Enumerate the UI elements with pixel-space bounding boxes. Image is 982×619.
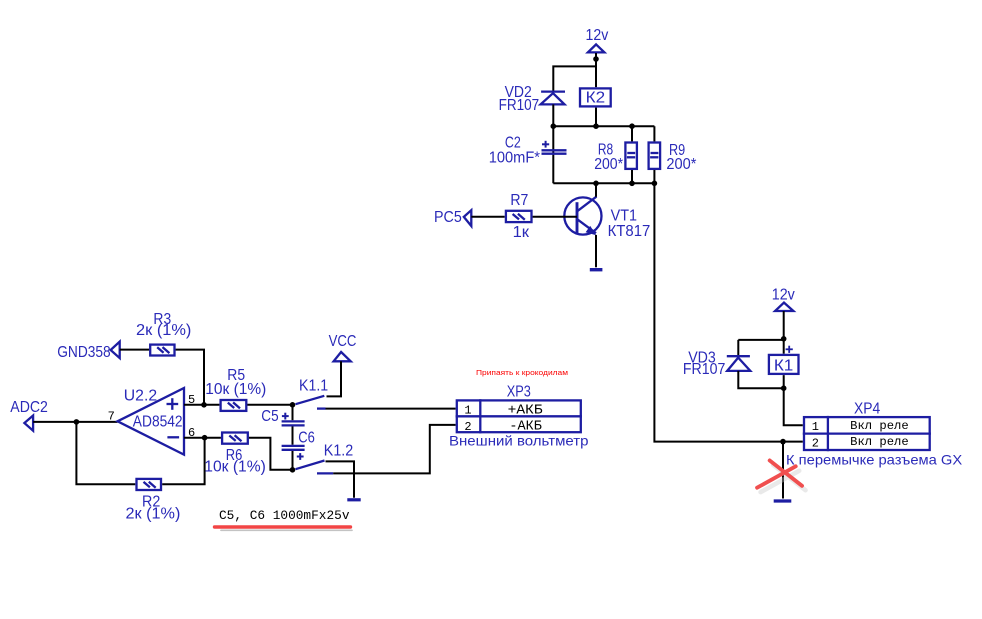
wire VCC to K1.1 arm [327, 361, 342, 396]
wire K1.1 contact to XP3 pin1 [326, 408, 456, 410]
wire K1.2 arm to ground [326, 461, 355, 497]
wire pin5 [184, 404, 219, 406]
node C6/K1.2 junction [290, 467, 296, 473]
wire K2 bottom [595, 108, 597, 127]
svg-text:1: 1 [464, 403, 471, 417]
node rail2-R8 [629, 181, 635, 187]
node rail-VD2 [551, 123, 557, 129]
svg-text:K1.2: K1.2 [324, 443, 353, 460]
capacitor C2 [542, 141, 567, 154]
svg-text:FR107: FR107 [683, 361, 726, 378]
svg-text:2: 2 [464, 420, 471, 434]
wire top rail [553, 125, 654, 127]
wire bottom rail [553, 182, 654, 184]
svg-text:Вкл реле: Вкл реле [850, 435, 909, 449]
op-amp U2.2 [118, 388, 185, 455]
wire branch to VD3 [738, 340, 783, 356]
wire R3 to pin5 [176, 350, 204, 405]
node rail-R8 [629, 123, 635, 129]
svg-text:ХР4: ХР4 [854, 400, 880, 417]
ground (K1.2) [347, 498, 360, 501]
resistor R6 [222, 433, 248, 444]
svg-text:10к (1%): 10к (1%) [204, 458, 265, 475]
svg-text:1: 1 [812, 420, 819, 434]
svg-text:2к (1%): 2к (1%) [136, 322, 191, 339]
connector XP3 [456, 399, 582, 434]
red X mark [761, 465, 806, 492]
svg-text:КТ817: КТ817 [608, 223, 651, 240]
relay coil K2 [580, 88, 611, 106]
node C5/K1.1 junction [290, 402, 296, 408]
wire R6 to C6 node [249, 438, 293, 470]
node output junction [74, 419, 80, 425]
svg-text:C6: C6 [298, 429, 315, 446]
svg-text:К перемычке разъема GX: К перемычке разъема GX [786, 452, 962, 467]
diode VD2 [541, 92, 565, 105]
wire stub to ground (crossed) [782, 442, 784, 499]
svg-text:R7: R7 [510, 192, 528, 209]
diode VD3 [727, 356, 751, 371]
power 12v (top) [586, 27, 609, 52]
wire GND358 to R3 [120, 349, 149, 351]
capacitor C5 [282, 413, 305, 426]
ground (VT1 emitter) [590, 268, 603, 271]
svg-text:+АКБ: +АКБ [508, 404, 543, 419]
power 12v (right) [772, 286, 795, 311]
svg-text:К2: К2 [586, 90, 606, 107]
wire R8 stubs [631, 126, 633, 183]
svg-text:10к (1%): 10к (1%) [205, 381, 266, 398]
svg-text:1к: 1к [513, 224, 529, 241]
wire collector [595, 183, 597, 197]
resistor R7 [506, 211, 532, 222]
node rail2-R9 [652, 181, 658, 187]
node junction at 12v [593, 56, 599, 62]
resistor R5 [221, 400, 247, 411]
port GND358 [57, 342, 119, 361]
svg-text:200*: 200* [594, 156, 623, 173]
wire R5 to C5 node [247, 404, 292, 406]
svg-text:7: 7 [108, 409, 115, 423]
node K1 bottom [781, 385, 787, 391]
svg-text:12v: 12v [586, 27, 609, 44]
wire R2 to pin6 [162, 438, 204, 485]
svg-text:ХР3: ХР3 [507, 384, 531, 401]
wire R9 stubs [653, 126, 655, 183]
wire 12v stub to K2 [595, 53, 597, 87]
wire feedback down to R2 [76, 422, 135, 484]
node K1 top branch [781, 336, 787, 342]
svg-text:AD8542: AD8542 [133, 414, 183, 431]
capacitor C6 [282, 446, 305, 460]
svg-text:VT1: VT1 [611, 207, 638, 224]
wire PC5 to R7 [471, 216, 504, 218]
wire VD2 anode to rail [552, 104, 554, 126]
wire branch to VD2 [553, 66, 596, 90]
wire VD3 anode bottom [738, 371, 783, 388]
svg-text:GND358: GND358 [57, 344, 111, 361]
node pin6 junction [202, 435, 208, 441]
node rail2-VT1 [593, 181, 599, 187]
wire ADC2 to op-amp output [33, 421, 117, 423]
svg-text:Вкл реле: Вкл реле [850, 419, 909, 433]
wire main right drop [654, 183, 802, 441]
wire pin6 [184, 437, 221, 439]
node rail-K2 [593, 123, 599, 129]
port PC5 [434, 209, 471, 226]
wire R7 to base [533, 216, 577, 218]
svg-text:ADC2: ADC2 [10, 399, 48, 416]
svg-text:2к (1%): 2к (1%) [126, 505, 181, 522]
wire emitter [595, 235, 597, 267]
node pin5 junction [201, 402, 207, 408]
red underline [215, 525, 351, 528]
resistor R2 [137, 479, 162, 490]
svg-text:Припаять к крокодилам: Припаять к крокодилам [476, 368, 568, 377]
svg-text:C5, C6 1000mFx25v: C5, C6 1000mFx25v [219, 509, 350, 523]
svg-text:-АКБ: -АКБ [509, 420, 541, 435]
wire K1.2 contact to XP3 pin2 [333, 425, 455, 474]
wire K1 to XP4 pin1 [784, 375, 803, 425]
transistor VT1 [564, 197, 601, 236]
switch K1.1 [296, 396, 326, 409]
switch K1.2 [296, 461, 334, 474]
svg-text:К1: К1 [774, 358, 794, 375]
wire 12v to K1 [783, 311, 785, 354]
svg-text:200*: 200* [666, 156, 696, 173]
svg-text:Внешний вольтметр: Внешний вольтметр [449, 434, 589, 449]
relay coil K1 [769, 346, 799, 375]
node XP4 pin2 branch [780, 439, 786, 445]
svg-text:U2.2: U2.2 [124, 387, 157, 404]
svg-text:VCC: VCC [329, 333, 357, 350]
resistor R3 [150, 345, 174, 356]
wire C5/C6 vertical [292, 405, 294, 470]
svg-text:C5: C5 [261, 408, 278, 425]
resistor R8 [625, 143, 637, 169]
connector XP4 [803, 416, 931, 451]
svg-text:12v: 12v [772, 286, 795, 303]
wire C2 vertical [552, 126, 554, 183]
power VCC [329, 333, 357, 362]
svg-text:100mF*: 100mF* [489, 150, 540, 167]
gray underline shadow [221, 529, 352, 531]
svg-text:K1.1: K1.1 [299, 377, 328, 394]
port ADC2 [10, 399, 48, 431]
svg-text:FR107: FR107 [499, 97, 540, 114]
resistor R9 [649, 143, 661, 169]
svg-text:2: 2 [812, 437, 819, 451]
svg-text:PC5: PC5 [434, 209, 462, 226]
ground (XP4 area) [774, 499, 792, 502]
